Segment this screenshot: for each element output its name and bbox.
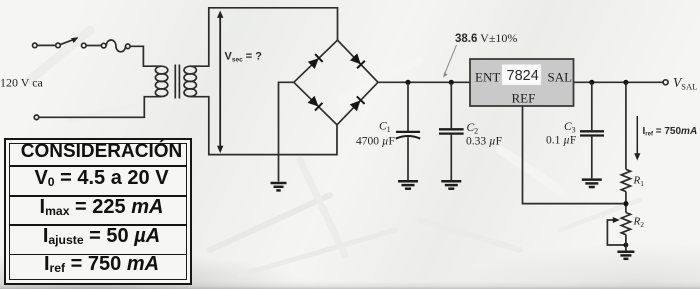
- table CONSIDERACION: [4, 138, 192, 285]
- switch S1: [56, 37, 86, 48]
- label Iref = 750mA: [643, 126, 698, 138]
- node REF junction: [623, 201, 628, 206]
- svg-text:C2: C2: [467, 122, 479, 136]
- svg-text:VSAL: VSAL: [673, 75, 697, 91]
- svg-text:4700 µF: 4700 µF: [356, 136, 395, 148]
- Vsec measurement arrow: [217, 11, 223, 154]
- resistor R1: [621, 169, 630, 191]
- ground (C1): [398, 181, 418, 188]
- wire bridge left vertex to ground: [279, 82, 294, 181]
- label SAL pin: [548, 70, 573, 85]
- svg-text:0.33 µF: 0.33 µF: [466, 136, 502, 148]
- label R2: [633, 216, 645, 230]
- table row Imax: [10, 197, 194, 217]
- paper texture streaks (decorative): [30, 30, 640, 275]
- label ENT pin: [475, 70, 500, 85]
- resistor R2 potentiometer: [621, 213, 630, 235]
- svg-text:C1: C1: [379, 121, 391, 135]
- transformer T1 secondary winding: [184, 66, 196, 96]
- table row V0: [10, 168, 194, 188]
- node C3 junction: [589, 80, 594, 85]
- node R branch junction: [623, 80, 628, 85]
- label 120 V ca: [0, 76, 44, 90]
- bridge rectifier outline: [294, 40, 378, 125]
- terminal VSAL: [663, 80, 668, 85]
- svg-text:R2: R2: [633, 216, 645, 230]
- table row Iajuste: [10, 226, 194, 246]
- label C1 4700uF: [356, 121, 395, 148]
- wire rail to R1: [625, 82, 627, 169]
- svg-text:Vsec = ?: Vsec = ?: [225, 51, 263, 64]
- diode D4 bottom-right: [349, 96, 364, 111]
- wire REF pin to junction: [523, 106, 624, 204]
- table row Iref: [10, 254, 194, 274]
- wire bridge right vertex to regulator input: [378, 81, 470, 83]
- svg-text:ENT: ENT: [475, 70, 500, 85]
- wire R1 to junction: [625, 192, 627, 213]
- label VSAL: [673, 75, 697, 91]
- wire secondary top to bridge top: [190, 8, 337, 66]
- ground (R2): [617, 252, 634, 259]
- label Vsec = ?: [225, 51, 263, 64]
- R2 wiper arm: [607, 217, 628, 247]
- diode D2 top-right: [350, 53, 365, 68]
- svg-text:C3: C3: [564, 121, 576, 135]
- label C3 0.1uF: [546, 121, 576, 147]
- capacitor C1: [396, 82, 420, 180]
- ground (bridge negative): [271, 183, 287, 190]
- ground (C3): [582, 180, 602, 187]
- capacitor C3: [580, 82, 604, 178]
- wire: [37, 44, 56, 46]
- node C1 junction: [405, 80, 410, 85]
- terminal top-left: [33, 43, 38, 48]
- svg-text:0.1 µF: 0.1 µF: [546, 135, 576, 147]
- svg-text:Iref = 750mA: Iref = 750mA: [643, 126, 698, 138]
- diode D1 top-left: [308, 54, 323, 69]
- transformer T1 core: [175, 65, 179, 99]
- svg-text:120 V ca: 120 V ca: [0, 76, 44, 90]
- ground (C2): [441, 181, 461, 188]
- wire secondary bottom to bridge bottom: [190, 97, 337, 155]
- svg-text:SAL: SAL: [548, 70, 573, 85]
- annotation 38.6V leader arrow: [443, 45, 456, 78]
- svg-text:R1: R1: [633, 175, 645, 189]
- label R1: [633, 175, 645, 189]
- svg-text:38.6 V±10%: 38.6 V±10%: [455, 31, 517, 45]
- wire to transformer primary top: [130, 46, 161, 66]
- svg-text:REF: REF: [512, 91, 536, 106]
- wire regulator output rail: [574, 81, 664, 83]
- wire to transformer primary bottom: [39, 97, 162, 118]
- label C2 0.33uF: [466, 122, 502, 148]
- svg-text:7824: 7824: [507, 68, 539, 84]
- wire: [86, 45, 101, 47]
- Iref annotation arrow: [634, 116, 640, 161]
- fuse F1: [101, 40, 130, 52]
- label 7824: [507, 68, 539, 84]
- regulator U1 7824 box: [470, 59, 574, 106]
- table header CONSIDERACION: [10, 142, 194, 161]
- terminal bottom-left: [34, 115, 39, 120]
- node C2 junction: [449, 80, 454, 85]
- label 38.6 V+-10%: [455, 31, 517, 45]
- wire R2 to ground: [625, 235, 627, 251]
- capacitor C2: [439, 82, 464, 180]
- transformer T1 primary winding: [155, 66, 167, 96]
- label REF pin: [512, 91, 536, 106]
- diode D3 bottom-left: [307, 95, 322, 110]
